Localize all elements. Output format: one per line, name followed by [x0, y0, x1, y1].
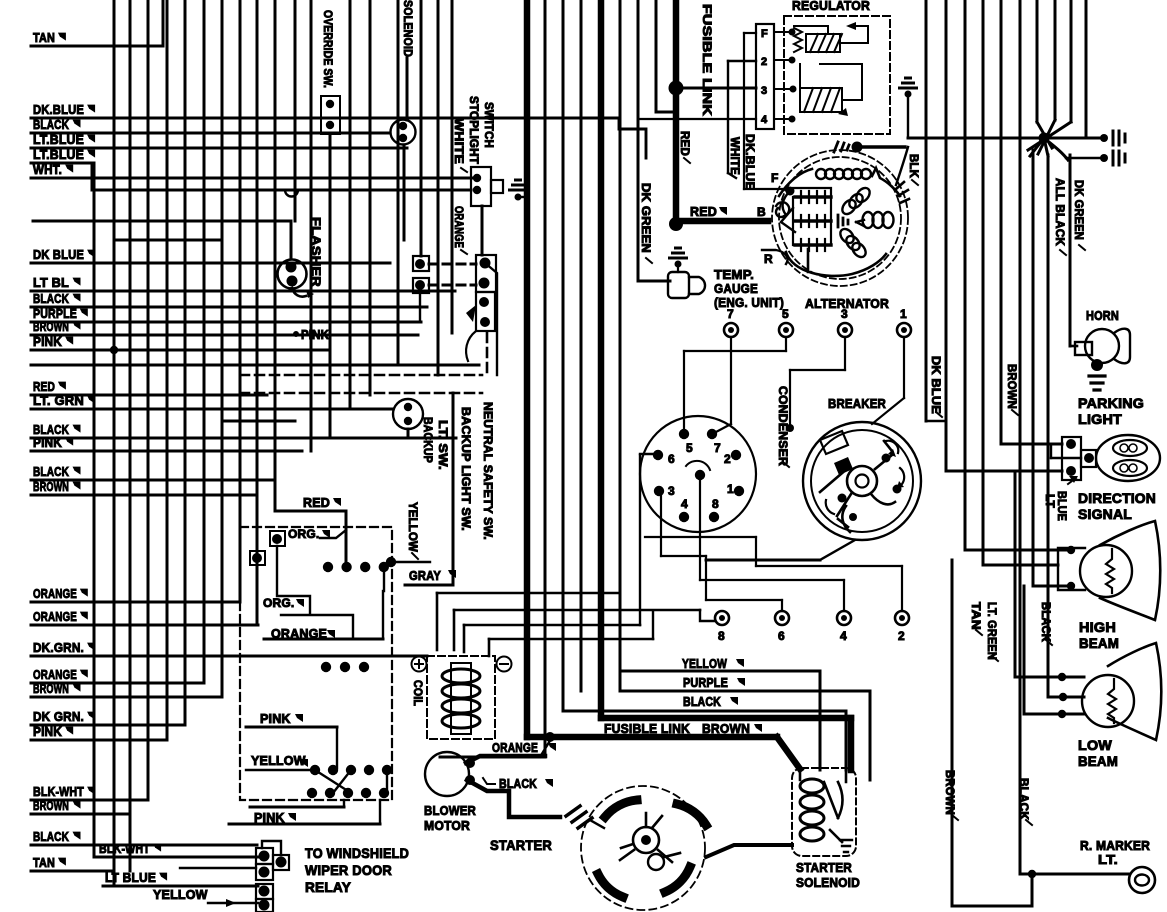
backup lt sw body: [393, 399, 423, 429]
backup lt sw label: [421, 417, 448, 470]
svg-text:BROWN: BROWN: [33, 798, 69, 813]
svg-text:3: 3: [841, 307, 848, 321]
svg-text:5: 5: [686, 441, 693, 455]
svg-text:FUSIBLE LINK: FUSIBLE LINK: [604, 721, 690, 736]
svg-text:BLK-WHT: BLK-WHT: [33, 784, 84, 799]
wire BLK: [896, 94, 908, 185]
svg-text:CONDENSER: CONDENSER: [776, 386, 788, 467]
svg-text:GRAY: GRAY: [409, 569, 441, 583]
wire vertical x130: [129, 0, 132, 871]
high beam label: [1079, 619, 1119, 651]
wire stoplight down: [481, 206, 484, 255]
label DK GREEN right: [1072, 180, 1085, 250]
wire X horizontal: [908, 137, 1104, 140]
wire orange relay: [264, 591, 383, 639]
wire row4 DK GREEN: [638, 118, 756, 120]
wire x1033 low: [1032, 150, 1035, 586]
label BLACK blower: [483, 777, 553, 791]
wire vertical right x1071: [1070, 0, 1073, 122]
wire vertical x350: [349, 0, 352, 409]
svg-text:YELLOW: YELLOW: [682, 657, 727, 671]
wire LT BLUE sub: [103, 870, 258, 886]
coil body: [442, 663, 480, 734]
parking bulbs: [1096, 435, 1160, 481]
parking light label: [1078, 395, 1144, 427]
ignition pins: [653, 429, 744, 522]
svg-text:7: 7: [727, 307, 734, 321]
svg-text:4: 4: [681, 497, 688, 511]
wire vertical right x965: [964, 0, 967, 550]
wire vertical right x1001: [1000, 0, 1003, 444]
temp gauge body: [668, 272, 705, 298]
wire BLACK y845: [31, 829, 257, 845]
coil plus: [412, 657, 427, 672]
wire red relay: [275, 511, 346, 567]
svg-text:8: 8: [712, 497, 719, 511]
regulator coil 1: [806, 34, 842, 52]
wire vertical x311: [310, 0, 313, 451]
starter solenoid label: [796, 860, 860, 890]
svg-text:1: 1: [727, 482, 734, 496]
wire ORANGE y683: [31, 667, 204, 683]
X node: [1028, 120, 1071, 160]
breaker bottom wire: [706, 540, 855, 560]
svg-text:BEAM: BEAM: [1078, 753, 1118, 769]
regulator arrows: [838, 22, 856, 116]
svg-text:GAUGE: GAUGE: [714, 281, 758, 296]
label YELLOW mid: [682, 657, 744, 671]
label PINK low: [254, 811, 296, 825]
wire ORANGE y625: [31, 609, 258, 625]
backup switch assembly: [466, 292, 495, 361]
relay connector squares: [180, 841, 289, 912]
label BLACK vert low: [1017, 778, 1032, 825]
wire BROWN y814: [31, 798, 130, 814]
svg-text:DK GREEN: DK GREEN: [1072, 180, 1084, 240]
label BROWN vert low: [943, 770, 958, 820]
svg-text:1: 1: [900, 307, 907, 321]
wire y421: [222, 420, 295, 423]
wire x656 row2: [656, 0, 674, 112]
svg-text:4: 4: [761, 114, 768, 126]
svg-text:BLACK: BLACK: [683, 695, 721, 709]
label ORG relay: [288, 527, 330, 541]
flasher body: [278, 260, 315, 299]
svg-text:BLK: BLK: [907, 154, 919, 178]
wire vertical right x926: [925, 0, 928, 421]
svg-text:SOLENOID: SOLENOID: [401, 0, 413, 57]
svg-text:PINK: PINK: [33, 435, 62, 450]
wire override down: [329, 134, 332, 438]
blower motor label: [424, 803, 476, 833]
svg-text:PARKING: PARKING: [1078, 395, 1144, 411]
label YELLOW relay: [251, 754, 308, 768]
wire pink low: [229, 800, 380, 824]
svg-text:DK GRN.: DK GRN.: [33, 709, 84, 724]
svg-text:SWITCH: SWITCH: [482, 102, 494, 148]
svg-text:TO WINDSHIELD: TO WINDSHIELD: [305, 845, 409, 861]
svg-text:2: 2: [898, 629, 905, 643]
svg-text:MOTOR: MOTOR: [424, 818, 470, 833]
r marker body: [1129, 867, 1155, 893]
label ALL BLACK: [1053, 178, 1066, 255]
low beam wires: [1015, 586, 1084, 718]
relay dots row3: [307, 765, 392, 798]
ground BLK top: [900, 78, 917, 98]
terminal 4 bottom: [700, 476, 851, 643]
regulator connector: [756, 24, 774, 129]
breaker internals: [820, 431, 904, 532]
svg-text:COIL: COIL: [411, 680, 423, 706]
svg-text:STARTER: STARTER: [490, 837, 552, 853]
svg-text:8: 8: [718, 629, 725, 643]
wire backup down: [407, 429, 410, 438]
wire BLACK y480: [31, 464, 275, 480]
wire orange mid: [445, 739, 551, 757]
svg-text:3: 3: [761, 85, 767, 97]
high beam wires: [965, 550, 1071, 586]
direction signal label: [1078, 490, 1156, 522]
svg-text:ORG.: ORG.: [263, 596, 294, 610]
wire vertical x148: [147, 0, 150, 800]
svg-text:LT: LT: [1043, 494, 1055, 508]
svg-text:TAN: TAN: [33, 855, 55, 870]
low beam bulb: [1082, 675, 1134, 727]
wire vertical x295: [294, 0, 297, 221]
wire ORANGE y602: [31, 586, 240, 602]
wire BLACK y307: [31, 291, 427, 307]
wire DK GRN. y725: [31, 709, 185, 725]
svg-text:BACKUP: BACKUP: [421, 417, 433, 463]
wire WHITE reg: [728, 61, 756, 178]
parking connector: [1062, 437, 1096, 480]
relay dots row1: [323, 557, 430, 591]
label YELLOW vert: [406, 502, 418, 559]
svg-text:REGULATOR: REGULATOR: [792, 0, 870, 13]
alternator mini connector: [834, 142, 909, 204]
svg-text:2: 2: [761, 56, 767, 68]
svg-text:3: 3: [668, 484, 675, 498]
svg-text:B: B: [757, 205, 766, 219]
wire y221: [33, 221, 291, 259]
svg-text:ORG.: ORG.: [288, 527, 319, 541]
wire vertical x204: [203, 0, 206, 683]
svg-text:DK.BLUE: DK.BLUE: [33, 102, 84, 117]
wire x1070 low: [1069, 155, 1072, 346]
svg-text:HIGH: HIGH: [1079, 619, 1116, 635]
regulator pins: [774, 29, 797, 123]
svg-text:ORANGE: ORANGE: [452, 206, 464, 248]
terminal 8 bottom: [640, 454, 729, 643]
wire PINK y350: [31, 334, 330, 350]
connector squares stoplight: [413, 255, 497, 375]
ground x518: [510, 180, 528, 201]
wire TAN riser: [162, 0, 165, 46]
wire DKBLUE reg: [744, 33, 790, 189]
relay dots row2: [321, 662, 369, 672]
label BLACK mid: [683, 695, 738, 709]
ignition connector circle: [640, 416, 756, 532]
terminal 2 bottom: [645, 537, 909, 643]
wire gray riser: [405, 393, 453, 585]
coil box: [427, 656, 495, 739]
wire vertical right x946: [945, 0, 948, 471]
svg-text:BLUE: BLUE: [1055, 491, 1067, 521]
temp gauge ground: [670, 248, 687, 272]
label BLACK vert right: [1039, 602, 1052, 645]
svg-text:TAN: TAN: [969, 602, 981, 630]
svg-text:ORANGE: ORANGE: [33, 667, 77, 682]
regulator box: [784, 16, 890, 134]
regulator coil 2: [800, 88, 842, 112]
alternator terminals: [757, 171, 795, 266]
svg-text:BREAKER: BREAKER: [828, 396, 886, 411]
wire y240: [114, 239, 222, 242]
terminal 7 top: [716, 307, 738, 432]
svg-text:LIGHT: LIGHT: [1078, 411, 1122, 427]
condenser label: [776, 386, 789, 467]
svg-text:TAN: TAN: [33, 30, 55, 45]
svg-text:BROWN: BROWN: [943, 770, 955, 815]
svg-text:BLACK: BLACK: [33, 291, 69, 306]
label WHITE vert: [452, 118, 467, 172]
svg-text:LT BL: LT BL: [33, 275, 69, 290]
junction thick: [545, 732, 555, 742]
wire vertical x452: [451, 0, 454, 333]
svg-text:OVERRIDE SW.: OVERRIDE SW.: [321, 10, 333, 88]
blower motor body: [425, 752, 469, 796]
svg-text:WHITE: WHITE: [452, 118, 464, 164]
wire x1048 low: [1047, 155, 1050, 697]
svg-text:LT.: LT.: [1098, 852, 1118, 867]
wire LT. GRN y409: [31, 393, 393, 409]
wire LT.BLUE y163: [31, 147, 95, 163]
wire BLK-WHT y800: [31, 784, 148, 800]
svg-text:5: 5: [782, 307, 789, 321]
svg-text:BROWN: BROWN: [702, 721, 750, 736]
label ORG relay2: [263, 596, 304, 610]
svg-text:RELAY: RELAY: [305, 879, 351, 895]
wire x952 brown: [951, 560, 954, 906]
svg-text:F: F: [771, 171, 779, 185]
svg-text:YELLOW: YELLOW: [406, 502, 418, 552]
wire x1015 start: [1014, 471, 1017, 677]
svg-text:LT. GRN: LT. GRN: [33, 393, 84, 408]
svg-text:RED: RED: [303, 496, 330, 510]
svg-text:PINK: PINK: [260, 712, 291, 726]
svg-text:6: 6: [778, 629, 785, 643]
wire stoplight feeds: [92, 163, 471, 197]
svg-text:PINK: PINK: [301, 328, 329, 342]
svg-text:HORN: HORN: [1086, 308, 1119, 323]
svg-text:TEMP.: TEMP.: [714, 267, 754, 282]
label RED relay: [303, 496, 341, 510]
label PINK mid: [293, 328, 329, 342]
label PURPLE mid: [683, 676, 745, 690]
wire DK BLUE y263: [31, 247, 390, 263]
label BLK: [907, 154, 919, 185]
relay square 1: [270, 531, 285, 546]
label DK GREEN vert: [639, 183, 652, 263]
neutral safety dashed: [240, 333, 487, 393]
label DK BLUE vert right: [929, 356, 942, 417]
relay wires mid: [257, 530, 353, 637]
svg-text:BLACK: BLACK: [1017, 778, 1029, 820]
breaker body: [803, 422, 921, 540]
wire vertical x185: [184, 0, 187, 725]
windshield relay label: [305, 845, 409, 895]
label ORANGE mid: [492, 741, 556, 755]
svg-text:PINK: PINK: [33, 334, 62, 349]
svg-text:FUSIBLE LINK: FUSIBLE LINK: [700, 4, 714, 116]
svg-text:F: F: [761, 28, 768, 40]
svg-text:BLACK: BLACK: [499, 777, 537, 791]
svg-text:BROWN: BROWN: [33, 479, 69, 494]
wire vertical x398: [397, 0, 400, 365]
fusible link wire: [669, 0, 684, 231]
svg-text:DK.GRN.: DK.GRN.: [33, 640, 84, 655]
high beam reflector: [1100, 521, 1160, 620]
wire vertical right x983: [982, 0, 985, 565]
svg-text:BLACK: BLACK: [1039, 602, 1051, 642]
label ORANGE relay: [271, 627, 335, 641]
wire vertical x222: [221, 0, 224, 697]
svg-text:7: 7: [714, 441, 721, 455]
wire y365: [31, 364, 479, 367]
starter body: [581, 786, 706, 910]
label LT BLUE vert: [1043, 476, 1078, 521]
svg-text:DK GREEN: DK GREEN: [639, 183, 651, 253]
wire BLK-WHT sub: [97, 841, 258, 857]
wire pink relay: [246, 727, 337, 768]
svg-text:LT.BLUE: LT.BLUE: [33, 147, 84, 162]
terminal 1 top: [872, 307, 911, 424]
wire LT BL y291: [31, 275, 455, 291]
wire BROWN y495: [31, 479, 257, 495]
svg-text:ORANGE: ORANGE: [33, 586, 77, 601]
wire dkblue jog: [619, 118, 646, 158]
stoplight switch body: [471, 167, 503, 206]
r marker label: [1080, 838, 1150, 867]
svg-text:RED: RED: [690, 205, 717, 219]
junction PINK: [110, 346, 118, 354]
wire vertical right x1086: [1085, 0, 1088, 138]
svg-text:STARTER: STARTER: [796, 860, 852, 875]
override switch body: [321, 96, 340, 134]
svg-text:4: 4: [840, 629, 847, 643]
wire relay row conn: [246, 769, 313, 771]
wire vertical x257: [256, 0, 259, 625]
svg-text:PURPLE: PURPLE: [683, 676, 728, 690]
terminal 6 bottom: [661, 492, 789, 643]
svg-text:DIRECTION: DIRECTION: [1078, 490, 1156, 506]
wire DK.BLUE y118: [31, 102, 619, 118]
svg-text:LT. SW.: LT. SW.: [436, 420, 448, 470]
label ORANGE vert: [452, 206, 467, 254]
temp gauge label: [714, 267, 784, 310]
svg-text:NEUTRAL SAFETY SW.: NEUTRAL SAFETY SW.: [481, 402, 493, 540]
svg-text:ALL BLACK: ALL BLACK: [1053, 178, 1065, 246]
starter bullet: [566, 806, 604, 828]
wire main thick x527: [527, 0, 800, 769]
coil wires top: [437, 593, 714, 656]
relay square 2: [250, 551, 265, 565]
terminal 3 top: [786, 307, 852, 432]
coil minus: [497, 657, 512, 672]
wire PINK y740: [31, 724, 167, 740]
wire BLACK y438: [31, 422, 456, 438]
label BROWN vert right: [1005, 364, 1018, 415]
wire RED y395: [31, 379, 267, 395]
wire RED thick to B: [676, 218, 768, 225]
low beam reflector: [1108, 643, 1161, 740]
wire BROWN y335: [31, 319, 418, 335]
wire solenoid-starter: [706, 845, 792, 857]
wire YELLOW sub: [153, 888, 258, 907]
horn wire: [1070, 345, 1077, 348]
wire LT.BLUE y148: [31, 132, 407, 148]
marker wires: [952, 870, 1129, 906]
svg-text:STOPLIGHT: STOPLIGHT: [467, 96, 479, 164]
svg-text:WHT.: WHT.: [33, 162, 62, 177]
high beam bracket: [1058, 546, 1085, 590]
wire x620 YELLOW: [620, 0, 820, 770]
alternator field coil: [779, 168, 900, 196]
wire vertical x421: [420, 0, 423, 256]
svg-text:BLOWER: BLOWER: [424, 803, 476, 818]
svg-text:BLACK: BLACK: [33, 829, 69, 844]
wire PINK y451: [31, 435, 302, 451]
wire vertical x167: [166, 0, 169, 740]
svg-text:BROWN: BROWN: [1005, 364, 1017, 409]
label GRAY: [409, 569, 456, 583]
wiper relay box: [240, 527, 392, 800]
alternator case: [772, 150, 908, 286]
wire x545: [440, 0, 545, 757]
wires parking: [926, 421, 1081, 471]
wire vertical x240: [239, 0, 242, 602]
wire x640 DK GREEN: [638, 0, 670, 281]
svg-text:BROWN: BROWN: [33, 319, 69, 334]
svg-text:BROWN: BROWN: [33, 681, 69, 696]
wire X ground2: [1066, 151, 1125, 165]
horn body: [1075, 329, 1130, 371]
alternator bottom: [786, 249, 886, 276]
solenoid coils: [800, 770, 852, 852]
svg-text:6: 6: [668, 452, 675, 466]
svg-text:2: 2: [724, 452, 731, 466]
svg-text:WHITE: WHITE: [728, 137, 740, 175]
label RED horiz: [690, 205, 727, 219]
wire main thick x601: [601, 0, 851, 770]
svg-text:YELLOW: YELLOW: [251, 754, 306, 768]
terminal 5 top: [684, 307, 793, 430]
horn ground: [1089, 376, 1105, 390]
svg-text:R: R: [764, 252, 773, 266]
wire vertical x370: [369, 0, 372, 395]
wire WHT. y178: [31, 162, 473, 178]
wire TAN y46: [31, 30, 163, 46]
svg-text:ORANGE: ORANGE: [33, 609, 77, 624]
wire solenoid down: [403, 145, 406, 240]
label RED vert: [678, 131, 690, 163]
label LT GREEN vert: [985, 602, 998, 661]
wire row3 thick: [676, 87, 756, 90]
svg-text:YELLOW: YELLOW: [153, 888, 208, 902]
svg-text:WIPER DOOR: WIPER DOOR: [305, 862, 392, 878]
wire vertical x275: [274, 0, 277, 511]
label PINK relay: [260, 712, 303, 726]
